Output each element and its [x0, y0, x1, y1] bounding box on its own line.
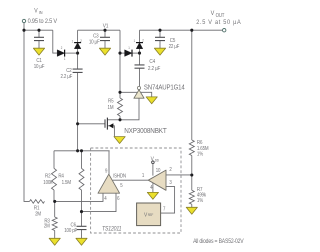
ground R3 — [49, 238, 60, 245]
capacitor C1 plates — [34, 37, 44, 40]
wire Vin rail — [24, 29, 53, 31]
svg-text:4: 4 — [150, 184, 153, 191]
resistor R4 1.5M — [79, 168, 84, 190]
wire R6 top to Vout rail — [191, 30, 193, 140]
wire inverter Vcc stub — [120, 91, 137, 93]
svg-text:0.95 to 2.5 V: 0.95 to 2.5 V — [28, 18, 58, 26]
wire C3 leads — [104, 30, 106, 48]
capacitor C2 plates — [73, 69, 83, 72]
IC TS12011 dashed outline — [91, 148, 181, 233]
svg-text:1: 1 — [142, 173, 145, 180]
wire C1 leads — [38, 30, 40, 48]
svg-text:1: 1 — [134, 39, 136, 43]
resistor R1 2M — [30, 200, 45, 204]
svg-text:4: 4 — [104, 196, 107, 203]
svg-text:V: V — [151, 156, 155, 163]
svg-text:V1: V1 — [103, 23, 109, 30]
svg-text:2.2 µF: 2.2 µF — [148, 65, 160, 72]
svg-text:R1: R1 — [34, 205, 40, 212]
wire node A to D2 anode — [77, 49, 79, 53]
wire R4 leads — [81, 151, 83, 212]
resistor R6 1.65M — [189, 140, 194, 155]
ground R7 — [186, 207, 197, 214]
terminal Vin — [22, 19, 25, 22]
wire D2 cathode to V1 rail — [77, 30, 79, 42]
svg-text:NXP3008NBKT: NXP3008NBKT — [124, 127, 167, 135]
wire left vertical Vin to R1 — [24, 30, 30, 201]
wire C6 leads — [81, 212, 83, 239]
wire source lead to ground — [107, 126, 114, 137]
svg-text:2: 2 — [61, 46, 63, 50]
svg-text:C5: C5 — [170, 38, 176, 45]
svg-text:1%: 1% — [197, 198, 204, 205]
ground C5 — [154, 48, 165, 55]
svg-text:DD: DD — [155, 158, 160, 162]
svg-text:10 µF: 10 µF — [34, 63, 45, 70]
wire inverter input to drain node — [120, 98, 139, 119]
wire comparator pin2 to feedback node — [166, 174, 192, 176]
wire R5 leads — [119, 116, 121, 120]
svg-text:1M: 1M — [108, 105, 114, 112]
wire D1 cathode to node A — [64, 52, 77, 54]
svg-text:2: 2 — [80, 39, 82, 43]
wire divider node to op-amp pin 4 — [55, 193, 103, 201]
svg-text:1: 1 — [72, 39, 74, 43]
svg-text:R7: R7 — [197, 187, 203, 194]
wire R7 bottom — [191, 204, 193, 207]
wire R4/C6 node to op-amp pin 6 — [82, 193, 117, 211]
wire drain lead — [107, 119, 120, 121]
svg-text:22 µF: 22 µF — [169, 43, 180, 50]
svg-text:TS12011: TS12011 — [102, 226, 121, 233]
svg-text:IN: IN — [39, 10, 43, 15]
wire inverter gnd stub — [141, 92, 152, 97]
ground C1 — [33, 48, 44, 55]
svg-text:100 pF: 100 pF — [64, 228, 77, 235]
resistor R5 1M — [118, 98, 123, 116]
svg-text:2M: 2M — [44, 223, 50, 230]
inverter U2 SN74AUP1G14 triangle — [134, 90, 144, 98]
wire op-amp SHDN pin5 to comparator out pin1 — [113, 179, 149, 181]
wire D4 cathode to Vout rail — [139, 30, 141, 42]
diode D3 — [125, 50, 132, 57]
svg-text:2.2 µF: 2.2 µF — [61, 74, 73, 81]
svg-text:1: 1 — [64, 57, 66, 61]
wire C2 bottom to clock rail — [77, 72, 79, 150]
svg-text:R2: R2 — [45, 173, 51, 180]
svg-text:2M: 2M — [35, 211, 41, 218]
svg-text:1.5M: 1.5M — [62, 180, 71, 187]
wire R3 leads — [54, 201, 56, 238]
ground C3 — [99, 48, 110, 55]
svg-text:3: 3 — [169, 179, 172, 186]
svg-text:10: 10 — [156, 168, 161, 175]
svg-text:R6: R6 — [197, 140, 203, 147]
reference Vref block — [137, 203, 161, 226]
wire gate lead — [78, 123, 105, 125]
ground comparator pin4 — [147, 192, 158, 199]
svg-text:C4: C4 — [149, 59, 155, 66]
wire corner down to D1 — [53, 30, 58, 53]
ground inverter — [146, 97, 157, 104]
capacitor C3 plates — [100, 37, 110, 40]
svg-text:10 µF: 10 µF — [89, 39, 100, 46]
svg-text:2.5 V at 50 µA: 2.5 V at 50 µA — [196, 19, 241, 27]
capacitor C4 plates — [135, 65, 145, 68]
Vdd power dot — [152, 161, 155, 164]
diode D1 — [57, 50, 64, 57]
svg-text:9: 9 — [105, 168, 108, 175]
wire V1 vertical — [119, 30, 121, 98]
resistor R3 2M — [52, 217, 57, 231]
svg-text:R5: R5 — [108, 98, 114, 105]
svg-text:V: V — [211, 11, 215, 18]
svg-text:2: 2 — [142, 38, 144, 42]
capacitor C6 plates — [77, 226, 87, 229]
svg-text:SN74AUP1G14: SN74AUP1G14 — [144, 84, 185, 92]
wire op-amp output to clock rail — [108, 151, 110, 175]
svg-text:V: V — [34, 8, 38, 15]
svg-text:C2: C2 — [66, 68, 72, 75]
diode D4 — [136, 43, 143, 49]
terminal Vout — [223, 29, 226, 32]
comparator A2 (TS12011 comp) — [148, 170, 166, 190]
svg-text:499k: 499k — [197, 192, 207, 199]
svg-text:5: 5 — [120, 183, 123, 190]
wire comparator pin4 to ground — [152, 183, 154, 193]
wire clock rail bottom — [54, 150, 110, 152]
capacitor C5 plates — [155, 37, 165, 40]
svg-text:C6: C6 — [71, 222, 77, 229]
ground C6 — [76, 238, 87, 245]
svg-text:2: 2 — [169, 167, 172, 174]
wire R2 leads — [53, 151, 55, 202]
inverter U2 SN74AUP1G14 bubble — [137, 86, 140, 89]
svg-text:C3: C3 — [93, 33, 99, 40]
wire C2 top lead — [77, 53, 79, 69]
svg-text:1: 1 — [128, 46, 130, 50]
svg-text:C1: C1 — [36, 58, 42, 65]
wire D3 anode lead — [120, 52, 125, 54]
wire R6-R7 middle — [191, 156, 193, 191]
ground MOSFET source — [114, 137, 125, 144]
wire V1 rail — [78, 29, 120, 31]
svg-text:1.65M: 1.65M — [197, 146, 209, 153]
svg-text:All diodes = BAS52-02V: All diodes = BAS52-02V — [193, 239, 244, 246]
svg-text:/SHDN: /SHDN — [113, 173, 127, 180]
resistor R2 100k — [52, 168, 57, 190]
diode pin marks — [61, 38, 144, 61]
diode D2 — [74, 43, 81, 49]
transistor Q1 NXP3008NBKT — [105, 118, 113, 130]
svg-text:6: 6 — [117, 196, 120, 203]
svg-text:R4: R4 — [58, 173, 64, 180]
wire D3 cathode to node B — [132, 52, 140, 54]
wire Vout rail — [140, 29, 223, 31]
wire C4 leads — [139, 53, 141, 86]
wire comparator pin3 to Vref pin7 — [161, 187, 175, 214]
op-amp A1 (TS12011 amp) — [98, 174, 120, 193]
wire C5 leads — [159, 30, 161, 48]
resistor R7 499k — [189, 190, 194, 204]
wire Vin terminal drop — [23, 23, 25, 30]
svg-text:1%: 1% — [197, 151, 204, 158]
svg-text:100k: 100k — [43, 180, 53, 187]
svg-text:7: 7 — [163, 206, 166, 213]
svg-text:REF: REF — [148, 213, 154, 217]
wire Vdd stub pin10 — [152, 163, 154, 175]
wire node B to D4 anode — [139, 49, 141, 53]
